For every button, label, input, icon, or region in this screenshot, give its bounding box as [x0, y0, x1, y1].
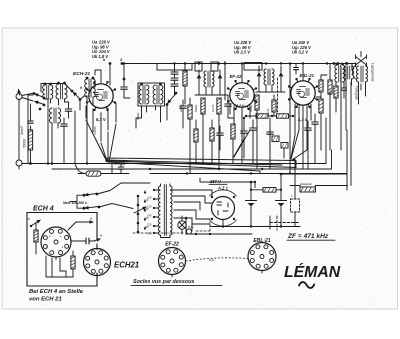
cap osc low	[180, 100, 187, 128]
output transformer	[357, 66, 368, 104]
voltage annotation block ECH21	[92, 40, 111, 59]
resistor label box 1	[256, 114, 268, 118]
svg-text:2,2 V: 2,2 V	[235, 104, 245, 108]
heater wires fan	[86, 120, 296, 171]
label ECH21	[114, 261, 139, 270]
svg-text:6,3v: 6,3v	[209, 258, 215, 262]
mains switch arm 2	[83, 204, 133, 210]
label ECH-21	[73, 71, 90, 77]
selector labels	[146, 196, 152, 236]
cap EF22	[241, 117, 248, 158]
label Socles vus par dessous	[131, 279, 222, 285]
small box det 2	[281, 143, 288, 159]
svg-text:Lautsprecher: Lautsprecher	[371, 63, 375, 83]
resistor 2 osc	[188, 98, 192, 174]
svg-text:4: 4	[99, 234, 102, 238]
svg-text:50000: 50000	[194, 104, 198, 112]
label 0,05	[114, 162, 124, 166]
heater fan drop	[260, 161, 296, 174]
ECH4 box outline	[27, 213, 97, 287]
wire IF2 bottom	[256, 91, 285, 93]
wire IF1 bottom	[195, 94, 228, 96]
osc can box	[138, 83, 165, 106]
cap bus small	[294, 64, 299, 75]
elco dashed	[291, 161, 300, 227]
dial lamp	[178, 216, 194, 234]
svg-text:0,1mF: 0,1mF	[266, 108, 270, 116]
bus psu 3	[150, 130, 347, 190]
svg-text:Uk 3,2 V: Uk 3,2 V	[292, 50, 309, 55]
label 50000	[23, 139, 27, 148]
svg-text:EBL·21: EBL·21	[300, 73, 315, 78]
bus chassis 2	[52, 150, 332, 169]
resistor right tall 1	[328, 64, 332, 151]
svg-text:0,05mF: 0,05mF	[93, 126, 97, 135]
electrolytic C2	[276, 173, 287, 227]
wire ECH21 anode up	[95, 64, 110, 86]
tube ECH21	[86, 81, 116, 111]
power transformer T1	[153, 184, 172, 238]
svg-text:Bei ECH 4 an Stelle: Bei ECH 4 an Stelle	[29, 289, 84, 295]
label 6,3v heater	[209, 258, 215, 262]
socket ECH21	[84, 249, 111, 279]
tube EBL21	[288, 78, 318, 108]
svg-text:110: 110	[144, 198, 149, 202]
label tilde	[299, 282, 314, 288]
output transformer primary	[344, 66, 354, 90]
label 6,3V EBL21	[298, 117, 308, 122]
svg-text:245: 245	[143, 225, 149, 229]
wire mains left	[70, 195, 84, 208]
wire bus 182 right	[281, 173, 347, 175]
resistor IF2 b	[272, 95, 276, 116]
cap EBL 1	[312, 114, 319, 164]
label 287V	[209, 179, 227, 184]
svg-text:EF-22: EF-22	[165, 242, 179, 248]
svg-text:220: 220	[143, 216, 149, 220]
socket ECH4 big	[41, 227, 71, 260]
antenna coil L2	[50, 108, 61, 165]
cap row2	[217, 126, 224, 150]
label ZF 471 kHz	[287, 233, 335, 240]
wire coils to bus	[75, 96, 87, 164]
label Lautsprecher	[371, 63, 375, 83]
top supply bus	[122, 63, 356, 65]
svg-text:von ECH 21: von ECH 21	[29, 297, 62, 303]
wires transformer to AZ1	[172, 190, 212, 224]
label LEMAN	[284, 262, 341, 281]
electrolytic C1	[246, 181, 257, 227]
wire antenna to switch	[22, 93, 33, 101]
cap input shunt	[28, 104, 34, 123]
svg-text:9: 9	[80, 86, 82, 90]
bus junction dots	[198, 62, 347, 64]
svg-text:6,3v: 6,3v	[188, 225, 194, 229]
dashed AVC line	[277, 78, 279, 112]
svg-text:Uk 2,3 V: Uk 2,3 V	[234, 50, 251, 55]
wire coils to grid	[65, 84, 88, 100]
cap input a	[65, 102, 72, 118]
wave switch S1	[33, 92, 46, 99]
label ECH 4	[33, 206, 54, 213]
svg-text:30000: 30000	[249, 104, 253, 112]
tube EF-22	[227, 80, 257, 110]
value label r6	[328, 89, 332, 95]
can box 2	[195, 62, 202, 71]
resistor label box 2	[277, 114, 289, 118]
node b	[103, 58, 123, 65]
cap input b	[61, 118, 68, 164]
can box 3	[211, 62, 218, 71]
resistor IF2 a	[255, 95, 259, 169]
label EBL21 socket	[253, 238, 270, 244]
value label r2	[211, 104, 215, 112]
resistor speaker a	[334, 82, 338, 112]
svg-text:EF-22: EF-22	[230, 74, 243, 79]
fuse 0,1A	[75, 164, 112, 177]
voltage annotation block EBL21	[292, 40, 312, 55]
resistor row2 a	[194, 120, 198, 164]
padder caps column 1	[171, 62, 178, 95]
svg-text:ZF = 471 kHz: ZF = 471 kHz	[287, 233, 329, 240]
junction dots row speaker	[330, 62, 352, 70]
wire ECH21 pins down	[86, 103, 116, 141]
osc coil L4b	[153, 83, 163, 104]
cap EBL 2	[305, 121, 312, 169]
cap ECH4 out	[71, 234, 102, 245]
resistor osc b	[183, 62, 187, 104]
svg-text:0,1mF: 0,1mF	[211, 104, 215, 112]
svg-text:ECH-21: ECH-21	[73, 71, 90, 77]
svg-text:Feldspule: Feldspule	[300, 182, 312, 186]
phone jack X	[356, 52, 367, 67]
label AZ1	[217, 186, 229, 191]
value label r1	[194, 104, 198, 112]
tube AZ1	[210, 190, 237, 226]
arrow ECH4 d	[68, 217, 94, 231]
value label r5	[179, 104, 183, 113]
IF2 trimmer left	[257, 66, 262, 92]
wire EBL21 top	[302, 64, 304, 81]
small box det 1	[272, 136, 279, 142]
resistor box field	[290, 182, 348, 192]
label 6,3V ECH21	[96, 117, 107, 122]
label EF-22 socket	[165, 242, 179, 248]
bus chassis 1	[22, 118, 326, 164]
svg-text:+: +	[291, 195, 293, 199]
svg-text:Feldspule: Feldspule	[355, 86, 359, 100]
cap det 1	[250, 120, 257, 164]
value label r8	[93, 126, 97, 135]
wire EF22 pins down	[230, 103, 250, 164]
can box 1	[157, 64, 192, 71]
wire boxes series	[246, 115, 293, 117]
selector contacts	[134, 191, 147, 233]
label EBL-21	[300, 73, 315, 78]
label g switch	[80, 86, 82, 90]
wire top coils	[41, 84, 65, 93]
label EF-22	[230, 74, 243, 79]
svg-text:ECH 4: ECH 4	[33, 206, 54, 213]
mains switch arm 1	[83, 183, 150, 197]
transformer tap labels	[143, 189, 149, 229]
svg-text:0,05mF: 0,05mF	[114, 162, 124, 166]
can box 4	[244, 63, 262, 71]
IF1 coils	[204, 71, 214, 95]
label 2,2V EF22	[235, 104, 245, 108]
resistor ECH4 left	[34, 223, 38, 254]
IF2 trimmer right	[279, 66, 284, 92]
svg-text:Socles vus par dessous: Socles vus par dessous	[133, 279, 194, 285]
dashed wires EBL socket	[269, 216, 271, 229]
wire EF22 top	[241, 64, 243, 83]
antenna coil L1b	[56, 82, 69, 105]
ECH4 pin labels	[46, 235, 64, 249]
resistor input shunt	[28, 126, 32, 165]
value label r3	[249, 104, 253, 112]
svg-text:287 V: 287 V	[209, 179, 222, 184]
osc switch	[166, 92, 178, 120]
wire grid EF22	[224, 62, 226, 101]
cap det 2	[267, 125, 274, 169]
dial pulley	[186, 229, 191, 234]
IF1 trimmer left	[197, 70, 202, 95]
resistor row2 b	[210, 120, 214, 164]
resistor IF1 b	[217, 98, 221, 169]
voltage annotation block EF22	[234, 40, 252, 55]
grid switch	[71, 90, 82, 110]
label Netz 110-250v	[63, 201, 88, 205]
svg-text:d: d	[90, 217, 92, 221]
wire x290 vertical	[270, 64, 290, 174]
svg-text:EBL·21: EBL·21	[253, 238, 270, 244]
osc coil leads	[136, 106, 161, 128]
wave switch S2	[34, 101, 46, 111]
svg-text:4: 4	[119, 58, 122, 62]
svg-text:145: 145	[144, 207, 149, 211]
IF1 trimmer right	[218, 70, 223, 95]
IF2 coils	[264, 69, 274, 92]
value label r7	[136, 112, 140, 120]
svg-text:40000: 40000	[136, 112, 140, 120]
resistor box 10000	[250, 188, 282, 193]
wire left vertical	[28, 95, 33, 164]
svg-text:LÉMAN: LÉMAN	[284, 262, 341, 281]
svg-text:Uk 1,8 V: Uk 1,8 V	[92, 54, 109, 59]
antenna coil L1	[43, 83, 53, 165]
osc coil L4a	[139, 83, 149, 104]
cap IF1 out	[225, 95, 234, 118]
svg-text:245: 245	[146, 232, 152, 236]
grid coil L3	[85, 77, 96, 105]
cap osc grid	[121, 62, 130, 98]
resistor EBL right 1	[319, 75, 327, 150]
wire EBL21 pins down	[291, 97, 321, 169]
dashed dial wires	[133, 222, 210, 233]
label von ECH 21	[29, 297, 62, 303]
resistor IF1 a	[201, 98, 205, 164]
label Bei ECH4 an Stelle	[29, 289, 84, 295]
ground terminal	[16, 160, 22, 166]
psu bottom bus	[186, 218, 252, 234]
resistor EF22 cathode	[231, 124, 235, 164]
label Feldspule	[355, 86, 359, 100]
resistor ECH4 bottom	[71, 251, 75, 277]
svg-text:6,3 V: 6,3 V	[96, 117, 107, 122]
ECH4 pin wires	[46, 256, 73, 277]
svg-text:5000: 5000	[328, 89, 332, 95]
wires right section vertical	[341, 67, 361, 186]
wire AZ1 down	[210, 220, 300, 227]
socket EBL21	[248, 243, 276, 274]
antenna terminal	[16, 89, 22, 100]
svg-text:50000: 50000	[23, 139, 27, 148]
cap line filter	[112, 164, 129, 174]
svg-text:20000: 20000	[179, 104, 183, 113]
field coil small	[335, 63, 345, 82]
dotted heater wire sockets	[186, 258, 248, 261]
svg-text:3mmF: 3mmF	[20, 125, 24, 135]
arrow ECH4 a	[28, 217, 41, 228]
svg-text:ECH21: ECH21	[114, 261, 139, 270]
wire antenna down	[18, 100, 20, 170]
value label r4	[266, 108, 270, 116]
label 3mmF	[20, 125, 24, 135]
socket EF22	[159, 248, 186, 278]
wires psu top	[200, 178, 255, 188]
cap speaker	[342, 82, 347, 98]
